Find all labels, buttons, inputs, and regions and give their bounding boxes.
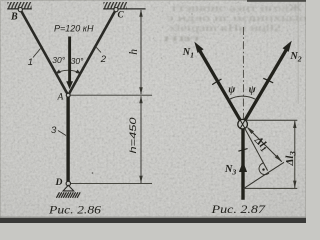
bottom horizontal construction line (243, 187, 297, 189)
top horizontal construction line (247, 119, 298, 121)
node A pin (66, 93, 70, 97)
node circle O (238, 119, 248, 129)
svg-text:B: B (10, 12, 18, 23)
paper specks (92, 172, 94, 174)
pin C (114, 8, 118, 12)
svg-text:нвт: нвт (163, 33, 203, 43)
leader 1 (33, 49, 41, 58)
svg-text:2: 2 (100, 54, 107, 65)
svg-text:C: C (118, 10, 125, 20)
perpendicular line (244, 162, 284, 188)
bar 1 (20, 9, 68, 95)
psi arc (228, 96, 256, 100)
svg-text:ψ: ψ (249, 84, 257, 95)
extension line at D (71, 183, 152, 185)
dark photo edge top right (247, 0, 306, 2)
bar 3 (66, 97, 69, 182)
right angle marker with dot (259, 163, 269, 175)
svg-text:хletqam кHи нц92: хletqam кHи нц92 (169, 23, 281, 33)
pin B (18, 8, 22, 12)
tick on N2 (263, 78, 273, 83)
support B hatched block (7, 2, 32, 9)
dark photo edge bottom (0, 218, 306, 223)
extension line at A (70, 94, 152, 96)
support C hatched block (103, 2, 145, 9)
svg-text:30°: 30° (52, 55, 65, 65)
svg-text:1: 1 (28, 57, 33, 68)
svg-text:гтэшпнс аэцт иголЖ: гтэшпнс аэцт иголЖ (172, 3, 304, 13)
support D ground hatch (56, 192, 80, 198)
svg-text:Рис. 2.86: Рис. 2.86 (48, 203, 101, 217)
dimension delta-l3 (right vertical) (284, 120, 297, 188)
support D triangle (63, 185, 74, 191)
bar-2 axis extension line (245, 128, 268, 170)
bar below node / N3 shaft (241, 128, 244, 199)
dimension h=450 (lower) (127, 96, 143, 184)
svg-text:3: 3 (51, 125, 57, 136)
svg-text:A: A (57, 93, 64, 103)
force P arrow (66, 37, 73, 90)
bleed-through text (back of page) (163, 3, 308, 43)
leader 3 (58, 131, 66, 136)
svg-text:D: D (55, 177, 63, 188)
dimension h (upper) (128, 9, 143, 95)
angle arc 30-30 (56, 70, 81, 73)
vector N1 (194, 42, 245, 129)
pin D (66, 181, 70, 185)
svg-text:ψ: ψ (228, 84, 236, 95)
N3 arrowhead (239, 161, 247, 172)
svg-text:P=120 кН: P=120 кН (54, 24, 94, 35)
tick on N3 shaft (238, 149, 247, 152)
svg-text:30°: 30° (71, 56, 84, 66)
tick on N1 (212, 79, 221, 85)
vertical axis dash-dot (242, 27, 244, 120)
leader 2 (96, 47, 102, 53)
svg-text:h=450: h=450 (127, 116, 138, 153)
bar 2 (68, 9, 116, 95)
vector N2 (240, 41, 291, 129)
svg-text:э идло нг нсвипхьыо: э идло нг нсвипхьыо (167, 13, 306, 23)
svg-text:h: h (128, 49, 140, 55)
svg-text:Рис. 2.87: Рис. 2.87 (210, 202, 266, 216)
dimension delta-l1 (diagonal) (247, 127, 283, 163)
faint fold line right (298, 0, 299, 104)
